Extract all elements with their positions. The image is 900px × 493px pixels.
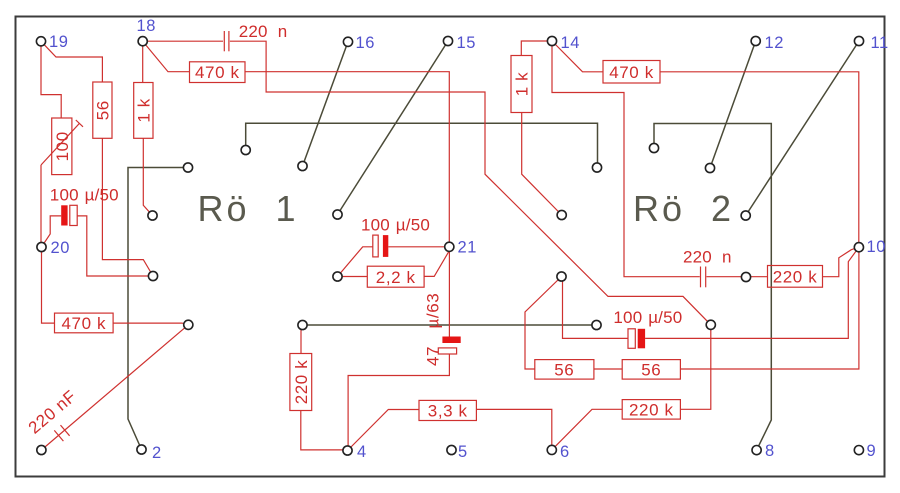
svg-text:19: 19 bbox=[49, 33, 69, 51]
svg-text:21: 21 bbox=[458, 239, 478, 257]
svg-text:56: 56 bbox=[554, 361, 574, 380]
svg-text:220 k: 220 k bbox=[629, 401, 674, 420]
svg-text:470 k: 470 k bbox=[195, 63, 240, 82]
svg-text:100: 100 bbox=[53, 131, 72, 161]
svg-text:18: 18 bbox=[137, 17, 157, 35]
svg-text:µ/50: µ/50 bbox=[85, 186, 119, 205]
svg-text:220: 220 bbox=[683, 248, 712, 267]
svg-text:9: 9 bbox=[867, 442, 877, 460]
svg-text:220 k: 220 k bbox=[773, 268, 818, 287]
svg-text:n: n bbox=[278, 22, 288, 41]
svg-text:470 k: 470 k bbox=[609, 63, 654, 82]
svg-text:15: 15 bbox=[457, 34, 477, 52]
svg-text:µ/50: µ/50 bbox=[648, 308, 682, 327]
svg-text:12: 12 bbox=[765, 34, 785, 52]
svg-text:2: 2 bbox=[152, 444, 162, 462]
svg-text:µ/50: µ/50 bbox=[396, 216, 430, 235]
svg-text:n: n bbox=[722, 248, 732, 267]
svg-text:8: 8 bbox=[765, 442, 775, 460]
svg-text:100: 100 bbox=[50, 186, 79, 205]
svg-text:56: 56 bbox=[94, 100, 113, 120]
svg-text:1 k: 1 k bbox=[135, 98, 154, 122]
svg-text:Rö 1: Rö 1 bbox=[198, 188, 299, 229]
svg-text:µ/63: µ/63 bbox=[424, 293, 443, 329]
svg-text:100: 100 bbox=[361, 216, 390, 235]
svg-text:10: 10 bbox=[867, 238, 887, 256]
svg-text:3,3 k: 3,3 k bbox=[428, 402, 468, 421]
svg-text:1 k: 1 k bbox=[513, 72, 532, 96]
svg-text:Rö 2: Rö 2 bbox=[633, 188, 734, 229]
svg-text:100: 100 bbox=[613, 308, 642, 327]
svg-text:470 k: 470 k bbox=[62, 314, 107, 333]
svg-text:6: 6 bbox=[560, 443, 570, 461]
svg-text:20: 20 bbox=[51, 239, 71, 257]
svg-text:220: 220 bbox=[239, 22, 268, 41]
svg-text:14: 14 bbox=[561, 34, 581, 52]
svg-text:47: 47 bbox=[424, 346, 443, 366]
svg-text:4: 4 bbox=[357, 443, 367, 461]
svg-text:220 k: 220 k bbox=[292, 360, 311, 405]
svg-text:2,2 k: 2,2 k bbox=[376, 268, 416, 287]
svg-text:16: 16 bbox=[356, 34, 376, 52]
svg-text:5: 5 bbox=[458, 443, 468, 461]
svg-text:56: 56 bbox=[641, 361, 661, 380]
svg-text:11: 11 bbox=[871, 34, 889, 52]
